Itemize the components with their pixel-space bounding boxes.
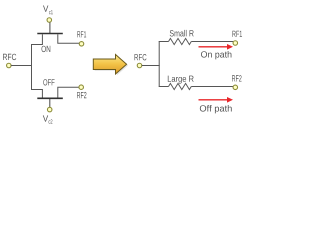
label RFC left bbox=[3, 54, 16, 60]
node Vc2 label bbox=[43, 115, 53, 123]
terminal RFC right bbox=[137, 63, 142, 68]
terminal RF1 right bbox=[233, 41, 238, 46]
resistor small R bbox=[169, 38, 192, 44]
label ON bbox=[42, 46, 51, 52]
wire RFC feed left bbox=[11, 65, 32, 67]
resistor large R bbox=[169, 83, 192, 89]
wire to small R bbox=[159, 41, 169, 43]
arrow Off path bbox=[199, 97, 234, 103]
label Off path bbox=[200, 105, 232, 113]
label RF2 left bbox=[77, 92, 86, 98]
wire Q2 drain to RF2 bbox=[58, 87, 79, 97]
wire gate lead Q1 bbox=[49, 22, 51, 33]
wire bus left bbox=[31, 45, 33, 90]
node Vc1 label bbox=[43, 6, 53, 15]
label RF1 right bbox=[232, 31, 242, 37]
wire bus right bbox=[158, 42, 160, 87]
label OFF bbox=[43, 79, 54, 85]
wire to large R bbox=[159, 86, 169, 88]
big yellow arrow bbox=[93, 55, 128, 76]
label On path bbox=[201, 51, 231, 59]
terminal RF2 left bbox=[79, 85, 84, 90]
arrow On path bbox=[199, 44, 234, 50]
label Small R bbox=[170, 30, 194, 37]
wire gate lead Q2 bbox=[49, 99, 51, 108]
wire large R to RF2 bbox=[191, 86, 233, 88]
label RFC right bbox=[135, 54, 147, 60]
transistor Q1 gate bar bbox=[37, 33, 63, 35]
terminal RF2 right bbox=[233, 85, 238, 90]
label RF1 left bbox=[77, 31, 86, 37]
wire Q1 source drop bbox=[31, 34, 42, 44]
wire small R to RF1 bbox=[191, 41, 233, 43]
label Large R bbox=[168, 76, 194, 84]
terminal Vc1 bbox=[47, 18, 52, 23]
transistor Q2 gate bar bbox=[37, 97, 63, 99]
wire Q1 drain to RF1 bbox=[58, 34, 80, 43]
wire RFC feed right bbox=[142, 65, 160, 67]
terminal Vc2 bbox=[47, 107, 52, 112]
terminal RFC left bbox=[7, 63, 12, 68]
wire Q2 source rise bbox=[31, 90, 42, 98]
label RF2 right bbox=[232, 75, 241, 81]
terminal RF1 left bbox=[79, 42, 84, 47]
